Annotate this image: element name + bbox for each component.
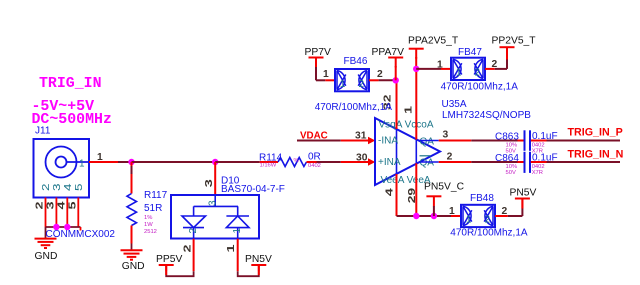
svg-text:2: 2 — [502, 206, 508, 217]
svg-text:U35A: U35A — [442, 99, 467, 110]
svg-text:1%: 1% — [144, 215, 152, 221]
svg-text:3: 3 — [46, 201, 57, 209]
svg-text:470R/100Mhz,1A: 470R/100Mhz,1A — [450, 228, 528, 239]
svg-text:VsqA VccoA: VsqA VccoA — [379, 120, 434, 131]
svg-text:X7R: X7R — [532, 170, 543, 176]
svg-text:TRIG_IN_N: TRIG_IN_N — [568, 149, 624, 161]
svg-text:2: 2 — [447, 151, 453, 162]
svg-text:PP7V: PP7V — [305, 47, 331, 58]
svg-text:3: 3 — [204, 179, 215, 187]
svg-text:0402: 0402 — [308, 163, 321, 169]
svg-text:1: 1 — [79, 159, 85, 170]
svg-text:3: 3 — [208, 200, 219, 206]
svg-text:QA: QA — [420, 158, 435, 169]
svg-text:CONMMCX002: CONMMCX002 — [46, 229, 116, 240]
svg-text:FB46: FB46 — [344, 56, 368, 67]
svg-text:FB47: FB47 — [458, 47, 482, 58]
svg-text:C864: C864 — [495, 153, 519, 164]
svg-text:1: 1 — [449, 206, 455, 217]
svg-text:GND: GND — [35, 251, 58, 262]
svg-text:LMH7324SQ/NOPB: LMH7324SQ/NOPB — [442, 110, 531, 121]
svg-text:2: 2 — [492, 59, 498, 70]
svg-text:0.1uF: 0.1uF — [532, 153, 558, 164]
svg-text:PN5V_C: PN5V_C — [424, 182, 465, 193]
svg-text:PP5V: PP5V — [156, 254, 182, 265]
svg-text:TRIG_IN: TRIG_IN — [39, 76, 102, 92]
svg-text:PN5V: PN5V — [245, 254, 272, 265]
svg-text:C863: C863 — [495, 132, 519, 143]
svg-text:GND: GND — [122, 261, 145, 272]
svg-text:4: 4 — [56, 201, 67, 209]
svg-text:FB48: FB48 — [470, 193, 494, 204]
svg-text:1: 1 — [437, 60, 443, 71]
svg-text:TRIG_IN_P: TRIG_IN_P — [568, 127, 623, 139]
svg-text:2: 2 — [182, 244, 193, 252]
svg-text:4: 4 — [384, 188, 395, 196]
svg-text:4: 4 — [63, 183, 74, 191]
svg-text:0.1uF: 0.1uF — [532, 131, 558, 142]
svg-text:470R/100Mhz,1A: 470R/100Mhz,1A — [315, 102, 393, 113]
svg-text:470R/100Mhz,1A: 470R/100Mhz,1A — [441, 82, 519, 93]
svg-text:1: 1 — [232, 228, 243, 234]
svg-text:PPA2V5_T: PPA2V5_T — [408, 35, 459, 46]
svg-text:PPA7V: PPA7V — [372, 47, 405, 58]
svg-text:1: 1 — [404, 106, 415, 114]
svg-text:2: 2 — [35, 201, 46, 209]
svg-text:30: 30 — [356, 153, 368, 164]
svg-text:QA: QA — [420, 137, 435, 148]
svg-text:-INA: -INA — [378, 136, 398, 147]
svg-text:1/16W: 1/16W — [260, 163, 277, 169]
svg-text:1: 1 — [226, 244, 237, 252]
svg-text:3: 3 — [52, 183, 63, 191]
svg-text:3: 3 — [443, 129, 449, 140]
svg-text:5: 5 — [74, 183, 85, 191]
svg-text:2: 2 — [41, 183, 52, 191]
svg-text:J11: J11 — [35, 126, 51, 137]
svg-text:1: 1 — [323, 69, 329, 80]
svg-text:2: 2 — [188, 228, 199, 234]
svg-text:0R: 0R — [308, 152, 321, 163]
svg-text:PN5V: PN5V — [510, 188, 537, 199]
svg-text:2: 2 — [377, 69, 383, 80]
svg-text:2512: 2512 — [144, 229, 157, 235]
svg-text:PP2V5_T: PP2V5_T — [492, 35, 537, 46]
svg-text:31: 31 — [355, 130, 367, 141]
svg-text:29: 29 — [407, 187, 418, 203]
svg-text:51R: 51R — [144, 203, 162, 214]
svg-text:+INA: +INA — [378, 157, 401, 168]
svg-text:%: % — [294, 158, 299, 164]
svg-text:R117: R117 — [144, 190, 168, 201]
svg-text:50V: 50V — [506, 170, 516, 176]
svg-text:1W: 1W — [144, 222, 153, 228]
svg-text:BAS70-04-7-F: BAS70-04-7-F — [221, 184, 285, 195]
svg-text:5: 5 — [67, 201, 78, 209]
